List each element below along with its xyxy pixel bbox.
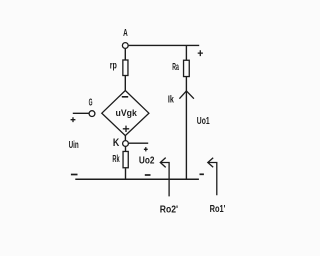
- svg-text:Ik: Ik: [168, 95, 174, 106]
- svg-text:Uo2: Uo2: [139, 155, 155, 166]
- minus sign inside source top: [122, 96, 128, 98]
- svg-text:uVgk: uVgk: [116, 108, 138, 119]
- dependent source uVgk diamond: [102, 91, 149, 136]
- plus sign Uo2: [144, 147, 148, 151]
- wire node A to top of Ra branch: [129, 44, 200, 46]
- wire node K to right stub: [129, 142, 149, 144]
- arrow Ro2 prime: [160, 158, 169, 197]
- svg-text:K: K: [113, 137, 119, 149]
- svg-text:Rk: Rk: [112, 154, 119, 165]
- wire node K to resistor Rk: [125, 147, 127, 152]
- plus sign Uo1 top: [198, 50, 203, 56]
- svg-text:A: A: [123, 28, 128, 39]
- node A terminal circle: [122, 43, 128, 49]
- svg-text:Uin: Uin: [69, 140, 79, 151]
- minus sign Uo1 bottom: [200, 173, 204, 175]
- node K circle: [123, 141, 129, 147]
- plus sign Uin: [71, 117, 76, 122]
- minus sign Uin bottom: [71, 174, 78, 176]
- resistor Rk: [123, 151, 128, 167]
- minus sign Uo2 bottom: [145, 174, 151, 176]
- wire right branch lower: [185, 77, 187, 180]
- svg-text:G: G: [89, 97, 93, 108]
- svg-text:Ra: Ra: [172, 62, 179, 73]
- wire rp to dependent source: [124, 76, 126, 91]
- wire node A to resistor rp: [124, 49, 126, 60]
- wire Rk to bottom rail: [125, 168, 127, 180]
- plus sign inside source bottom: [123, 126, 129, 132]
- svg-text:rp: rp: [110, 61, 117, 72]
- bottom rail wire: [75, 178, 199, 180]
- current arrow Ik chevron: [179, 91, 194, 99]
- svg-text:Uo1: Uo1: [197, 116, 210, 127]
- resistor Ra: [184, 60, 190, 76]
- wire right branch upper: [185, 45, 187, 60]
- grid terminal circle G: [89, 111, 95, 117]
- arrow Ro1 prime: [208, 158, 217, 195]
- svg-text:Ro2': Ro2': [160, 204, 178, 215]
- wire source to node K: [124, 136, 126, 141]
- svg-text:Ro1': Ro1': [210, 204, 226, 215]
- wire grid lead: [73, 112, 89, 114]
- resistor rp: [123, 60, 128, 76]
